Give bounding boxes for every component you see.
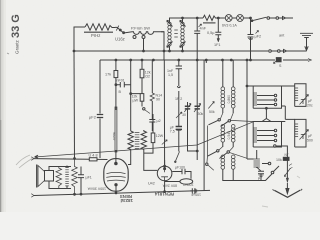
coil box1 frame <box>253 86 281 108</box>
transformer loop <box>49 167 71 189</box>
svg-text:7,5: 7,5 <box>170 130 175 134</box>
svg-text:U 4 8: U 4 8 <box>89 154 98 158</box>
wire from R4 to box1 <box>247 60 253 159</box>
resistor heater (zigzag) <box>203 15 218 20</box>
primary zigzag <box>56 167 62 189</box>
switch contacts band 2 <box>217 150 219 152</box>
svg-text:100kΩ: 100kΩ <box>183 182 194 186</box>
svg-text:17k: 17k <box>105 73 111 77</box>
svg-text:100µF: 100µF <box>191 193 201 197</box>
switch U16z <box>115 27 124 33</box>
wire Vm1 from R4 corner down <box>99 60 101 158</box>
capacitor uF2 <box>97 115 103 118</box>
svg-text:REN1814: REN1814 <box>154 192 174 197</box>
svg-text:Graetz: Graetz <box>15 40 20 54</box>
grid resistor box U48 <box>89 158 97 161</box>
winding bottom-right vertical hatch <box>254 159 260 167</box>
tube1 bottom lead <box>115 186 117 193</box>
svg-text:0,5µ: 0,5µ <box>207 31 215 35</box>
svg-text:20c: 20c <box>307 104 313 108</box>
wire Vm10 <box>205 60 207 63</box>
wire group2 links <box>282 119 295 121</box>
wire contact to R3 <box>143 39 145 52</box>
tube1 envelope (capsule) <box>104 159 128 192</box>
mains switch <box>251 20 253 22</box>
winding O1 upper <box>222 60 224 87</box>
trimmer arrow box2 <box>301 99 305 104</box>
coil box2 (right) frame <box>295 84 306 107</box>
faint pencil scribble near speaker <box>16 155 33 168</box>
lamp L2 <box>232 17 237 19</box>
pot 100k (lens) <box>180 179 193 184</box>
svg-text:nF01: nF01 <box>117 79 125 83</box>
svg-text:12W: 12W <box>156 134 164 138</box>
cap uF7,5 on Vm6 <box>176 127 182 130</box>
resistor R-mains (zigzag) <box>85 24 115 30</box>
wire V2 below coil <box>163 32 166 166</box>
svg-text:P.Früh SW: P.Früh SW <box>131 26 150 31</box>
wire left vertical <box>73 51 76 159</box>
svg-text:30k: 30k <box>198 112 204 116</box>
resistor 17k <box>115 60 117 110</box>
contact circles under coil <box>133 36 136 39</box>
svg-text:µF2: µF2 <box>89 115 97 120</box>
svg-text:33 G: 33 G <box>10 14 22 38</box>
winding O2 section3 <box>231 155 235 159</box>
resistor 10k black <box>283 157 289 160</box>
lamp L1 <box>218 17 225 19</box>
resistor 1114 on Vm4 (zigzag) <box>151 60 153 93</box>
variable arrow on vertical <box>284 168 290 177</box>
svg-text:470k: 470k <box>112 132 117 141</box>
Vm3 tail into tube right <box>128 155 131 165</box>
winding A top arrow <box>167 20 173 26</box>
capacitor nF2 on Vm4 <box>149 101 155 131</box>
cap 1nF on Vm6 <box>176 60 182 86</box>
svg-text:µF: µF <box>308 134 312 138</box>
svg-text:µW: µW <box>133 99 139 103</box>
tube1 grid arcs <box>106 172 125 181</box>
secondary zigzag on main vertical <box>72 159 78 195</box>
left page edge shading <box>0 0 1 212</box>
svg-text:6V3 0,1A: 6V3 0,1A <box>222 23 237 27</box>
svg-text:500: 500 <box>307 139 313 143</box>
link wire band1 to box3 <box>230 120 253 121</box>
svg-text:30: 30 <box>182 113 186 117</box>
chassis ground symbol <box>274 190 300 197</box>
svg-text:µF1: µF1 <box>86 176 92 180</box>
svg-text:0,860: 0,860 <box>227 95 231 104</box>
winding B top arrow <box>180 20 186 26</box>
winding leads to rails <box>170 18 183 51</box>
wire group1 links <box>266 86 294 119</box>
cap C2 on V5 <box>248 18 254 60</box>
cap 1F1 on V4 (to chassis arrow) <box>215 18 221 41</box>
coil box4 frame <box>295 119 306 147</box>
link wire band2 to winding block <box>229 152 247 158</box>
winding O1 lower <box>221 124 225 128</box>
svg-text:1F1: 1F1 <box>214 43 221 47</box>
bottom rail (sloped) <box>34 190 210 195</box>
svg-text:100V 30mA: 100V 30mA <box>87 187 106 191</box>
svg-text:1823d: 1823d <box>120 198 133 203</box>
contact pair <box>143 108 145 110</box>
svg-text:4nF: 4nF <box>200 27 207 31</box>
svg-text:1,5: 1,5 <box>168 73 173 77</box>
switch arm to tube2 <box>176 152 180 161</box>
resistor underline bar <box>84 31 113 33</box>
speaker driver box <box>45 171 54 182</box>
wire Vm9 <box>203 60 205 191</box>
switch contacts band 1 <box>218 119 220 121</box>
trimmer cap B <box>196 60 198 160</box>
cap bottom right <box>257 167 264 181</box>
tube1 grid top lead <box>115 150 117 164</box>
svg-text:80V 2mA: 80V 2mA <box>162 184 177 188</box>
wire top-left corner to resistor <box>74 27 85 51</box>
wire Vm6 lower <box>178 91 180 152</box>
winding O2 lower <box>231 124 235 128</box>
coil box3 frame <box>253 122 281 148</box>
tap wire to 10k <box>274 145 276 147</box>
svg-text:µF100: µF100 <box>175 166 185 170</box>
core winding (hatched vertical coil) <box>65 168 69 186</box>
trimmer arrow box4 <box>301 134 305 139</box>
trimmer cap A <box>188 102 198 151</box>
svg-text:U16z: U16z <box>115 37 125 42</box>
winding B bottom arrow <box>180 42 186 48</box>
antenna symbol <box>300 33 313 37</box>
svg-text:90: 90 <box>156 98 160 102</box>
svg-text:10k: 10k <box>276 158 282 162</box>
svg-text:µF2: µF2 <box>255 35 262 39</box>
transformer winding A <box>168 22 171 25</box>
tube1 cathode dot <box>115 184 117 186</box>
svg-text:50k: 50k <box>209 110 215 114</box>
electrolytic 100uF on rail <box>190 188 197 193</box>
taps with contacts box1 <box>257 96 274 105</box>
winding A bottom arrow <box>167 42 173 48</box>
svg-text:U42: U42 <box>148 182 155 186</box>
speaker cone <box>38 166 45 187</box>
svg-text:N7: N7 <box>285 153 289 157</box>
title Graetz 33 G rotated <box>10 14 22 54</box>
junction dots R4 <box>115 59 117 61</box>
winding O2 upper <box>232 60 234 87</box>
winding hatch box1 <box>253 93 257 105</box>
cap 4nF on V3 <box>194 18 200 60</box>
AF transformer: winding zigzag 1 <box>128 131 133 155</box>
AF transformer core hatch <box>135 133 140 149</box>
capacitor nF01 between Vm2,Vm3 <box>116 82 131 87</box>
winding O1 section3 <box>221 155 225 159</box>
svg-text:µ2: µ2 <box>157 119 161 123</box>
core dashes <box>174 30 178 37</box>
terminal rail top <box>34 158 108 161</box>
svg-text:PrHz: PrHz <box>91 33 100 38</box>
arrow down to chassis <box>286 178 288 183</box>
wire coil to down corner <box>161 32 164 60</box>
cap uF100 (horizontal) <box>172 169 191 179</box>
cap uF1 near speaker <box>78 167 84 195</box>
resistor 12k Ohm2 on x142 <box>141 60 143 94</box>
switch contacts bottom right <box>268 162 271 165</box>
svg-text:Ω2: Ω2 <box>145 75 150 79</box>
branch to resistor 12k-2 <box>131 94 142 107</box>
AF transformer: winding zigzag 2 <box>141 130 157 170</box>
Y link group2 top <box>262 119 271 122</box>
contact circle left low <box>206 163 208 165</box>
resistor 1,2W <box>144 114 153 153</box>
winding bottoms to common wire <box>223 169 272 180</box>
resistor 470k (tall) <box>115 107 117 152</box>
svg-text:µF: µF <box>308 99 312 103</box>
wire Vm3 plain <box>130 60 132 131</box>
transformer winding B <box>181 22 184 25</box>
coil P.Frueh SW (bumps below line) <box>132 32 164 35</box>
fuse on R4 <box>276 58 281 62</box>
